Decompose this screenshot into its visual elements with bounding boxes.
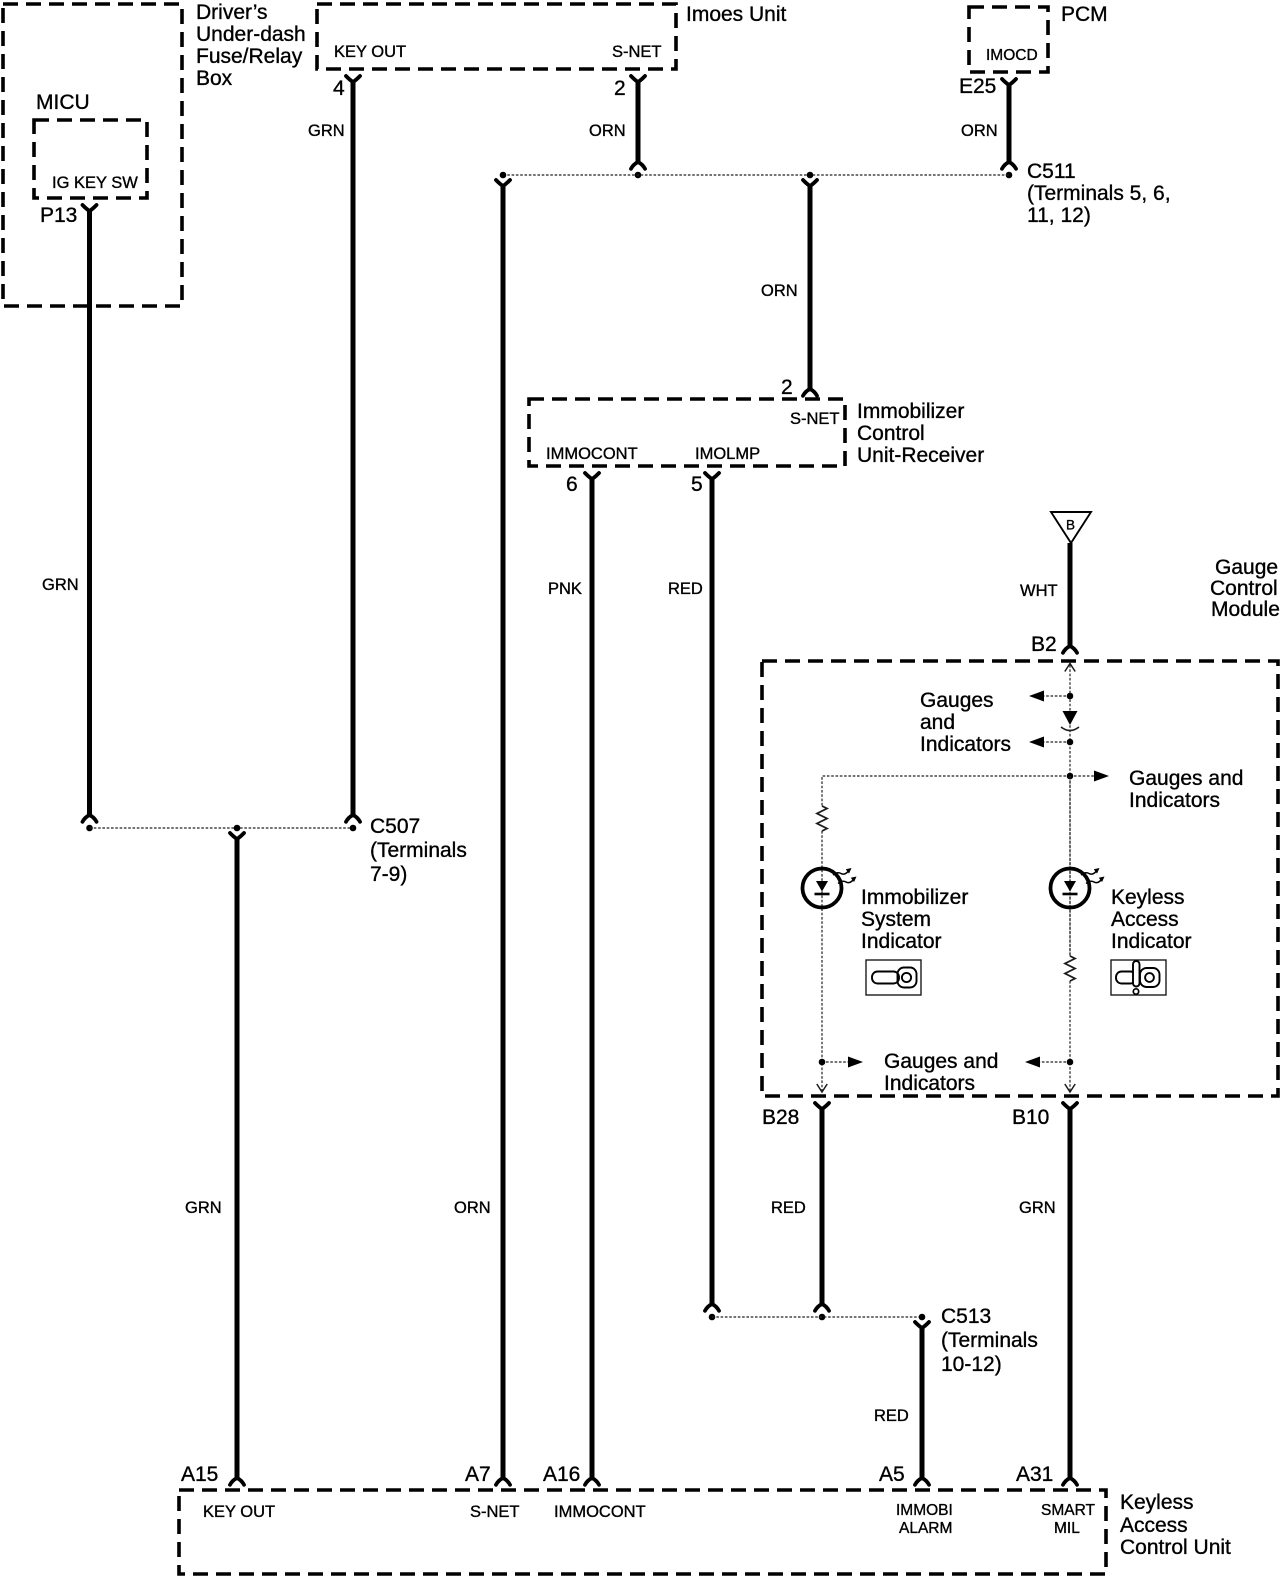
svg-text:IMOCD: IMOCD (986, 47, 1038, 64)
LED cathode bar (815, 893, 830, 896)
svg-text:IG KEY SW: IG KEY SW (52, 174, 138, 192)
wire ORN from pin 2 to C511 (636, 80, 641, 162)
connector half below C513 right (A5 wire start) (915, 1322, 929, 1328)
wire (dashed) to left arrow (bottom) (1040, 1061, 1066, 1063)
connector half at A7 (496, 1478, 510, 1485)
svg-text:IMMOBI: IMMOBI (896, 1502, 953, 1519)
wire GRN from C507 to A15 (235, 837, 240, 1478)
wire (thin) right leg bottom (1069, 981, 1071, 1091)
box: Imoes Unit (317, 4, 676, 69)
svg-text:ORN: ORN (961, 122, 998, 140)
svg-text:A5: A5 (879, 1463, 905, 1486)
connector half at A16 (585, 1478, 599, 1485)
wire ORN from E25 to C511 (1007, 83, 1012, 162)
svg-text:Control: Control (1210, 577, 1278, 600)
junction dot C511 at S-NET branch (635, 172, 642, 179)
svg-text:6: 6 (566, 473, 578, 496)
svg-text:(Terminals: (Terminals (370, 839, 467, 862)
connector half at C507 left (83, 815, 97, 822)
pin B28 connector (815, 1103, 829, 1109)
pin 2 connector at immobilizer (803, 389, 817, 396)
pin B10 connector (1063, 1103, 1077, 1109)
box: Driver's Under-dash Fuse/Relay Box (MICU outer) (3, 4, 182, 306)
wire (thin) right leg below third tap (1069, 776, 1071, 956)
junction dot (left leg bottom tap) (819, 1059, 826, 1066)
svg-text:C507: C507 (370, 815, 420, 838)
LED triangle (816, 881, 828, 892)
wire ORN from C511 to A7 (501, 184, 506, 1478)
connector half at A15 (230, 1478, 244, 1485)
box: IG KEY SW (34, 120, 147, 198)
key icon (immobilizer) key shape (898, 968, 917, 988)
junction dot C507 middle (234, 825, 241, 832)
svg-text:Keyless: Keyless (1111, 886, 1185, 909)
svg-text:GRN: GRN (308, 122, 345, 140)
svg-text:PCM: PCM (1061, 3, 1108, 26)
svg-text:and: and (920, 711, 955, 734)
svg-text:A15: A15 (181, 1463, 218, 1486)
svg-text:GRN: GRN (1019, 1199, 1056, 1217)
connector half below C507 middle (A15 wire start) (230, 833, 244, 839)
wire GRN from pin 4 to C507 (351, 80, 356, 815)
pin 6 connector (585, 473, 599, 479)
wire RED from pin 5 to C513 (710, 477, 715, 1304)
svg-text:MICU: MICU (36, 91, 90, 114)
resistor (left leg) (817, 806, 827, 831)
svg-text:WHT: WHT (1020, 582, 1058, 600)
svg-text:11, 12): 11, 12) (1027, 204, 1091, 227)
junction dot C513 left (709, 1314, 716, 1321)
connector half at C507 right (346, 815, 360, 822)
key icon (keyless) key shape (1140, 968, 1160, 987)
LED light arrows (keyless) (1081, 872, 1096, 876)
svg-text:B: B (1066, 518, 1075, 533)
LED cathode bar (keyless) (1063, 893, 1078, 896)
arrow right (bottom gauges) (848, 1057, 863, 1068)
box: Keyless Access Control Unit (179, 1490, 1106, 1574)
svg-text:(Terminals 5, 6,: (Terminals 5, 6, (1027, 182, 1171, 205)
svg-text:B2: B2 (1031, 633, 1057, 656)
connector half at C513 left (705, 1304, 719, 1311)
svg-text:B28: B28 (762, 1106, 799, 1129)
svg-text:B10: B10 (1012, 1106, 1049, 1129)
svg-text:Fuse/Relay: Fuse/Relay (196, 45, 303, 68)
svg-text:7-9): 7-9) (370, 863, 407, 886)
svg-text:2: 2 (781, 376, 793, 399)
junction dot C513 right (919, 1314, 926, 1321)
svg-text:Unit-Receiver: Unit-Receiver (857, 444, 984, 467)
arrow out of box at B10 (1065, 1084, 1075, 1092)
svg-text:Imoes Unit: Imoes Unit (686, 3, 787, 26)
svg-text:Access: Access (1120, 1514, 1188, 1537)
svg-text:Control Unit: Control Unit (1120, 1536, 1231, 1559)
svg-text:S-NET: S-NET (612, 43, 662, 61)
pin 4 connector (346, 76, 360, 82)
LED light arrows (immobilizer) (833, 872, 848, 876)
LED circle (immobilizer system indicator) (803, 869, 842, 908)
wire (dashed) to gauges arrow 1 (1042, 695, 1066, 697)
wire RED from B28 to C513 (820, 1107, 825, 1304)
wire (thin) branch to left leg (822, 776, 1066, 806)
wire (thin) left leg (821, 831, 823, 1091)
connector line C513 (712, 1316, 922, 1318)
svg-text:Under-dash: Under-dash (196, 23, 306, 46)
junction dot C511 at immobilizer branch (807, 172, 814, 179)
svg-text:2: 2 (614, 77, 626, 100)
junction dot C507 right (350, 825, 357, 832)
pin P13 connector (83, 205, 97, 211)
svg-text:RED: RED (874, 1407, 909, 1425)
connector line C507 (90, 827, 354, 829)
connector half at C511 (pin 2 end) (631, 162, 645, 169)
svg-text:A31: A31 (1016, 1463, 1053, 1486)
junction dot (third tap) (1067, 773, 1074, 780)
svg-text:Driver’s: Driver’s (196, 1, 268, 24)
pin E25 connector (1002, 79, 1016, 85)
pin 2 connector (631, 76, 645, 82)
arrow into box at B2 (1065, 664, 1075, 672)
arrow out of box at B28 (817, 1084, 827, 1092)
svg-text:Module: Module (1211, 598, 1280, 621)
svg-text:GRN: GRN (42, 576, 79, 594)
connector half at A31 (1063, 1478, 1077, 1485)
box: PCM (969, 7, 1048, 72)
wire (thin) B2 branch vertical (1069, 665, 1071, 956)
svg-text:Control: Control (857, 422, 925, 445)
wire GRN from B10 to A31 (1068, 1107, 1073, 1478)
wire WHT from antenna to B2 (1068, 543, 1073, 646)
junction dot (right leg bottom tap) (1067, 1059, 1074, 1066)
junction dot (second gauges tap) (1067, 739, 1074, 746)
svg-text:Immobilizer: Immobilizer (857, 400, 964, 423)
connector half below C511 left (A7 wire start) (496, 180, 510, 186)
svg-text:Indicator: Indicator (1111, 930, 1192, 953)
key icon (keyless) frame (1111, 960, 1166, 995)
svg-text:(Terminals: (Terminals (941, 1329, 1038, 1352)
svg-text:GRN: GRN (185, 1199, 222, 1217)
svg-text:IMMOCONT: IMMOCONT (546, 445, 638, 463)
antenna B symbol (1051, 512, 1091, 543)
junction dot C507 left (86, 825, 93, 832)
wire GRN from P13 to C507 (87, 209, 92, 815)
svg-text:SMART: SMART (1041, 1502, 1096, 1519)
wire RED from C513 to A5 (920, 1326, 925, 1478)
svg-text:MIL: MIL (1054, 1520, 1080, 1537)
LED triangle (keyless) (1064, 881, 1076, 892)
connector half at C511 right end (1002, 162, 1016, 169)
svg-text:RED: RED (771, 1199, 806, 1217)
arrow left (bottom keyless) (1025, 1057, 1040, 1068)
connector half below C511 branch (to immobilizer pin 2) (803, 180, 817, 186)
junction dot C511 left (500, 172, 507, 179)
arrow right (gauges and indicators right) (1094, 771, 1109, 782)
svg-text:ALARM: ALARM (899, 1520, 952, 1537)
key icon (immobilizer) frame (866, 960, 921, 995)
connector half at B2 (1063, 646, 1077, 653)
junction dot C513 middle (819, 1314, 826, 1321)
arrow left (gauges 2) (1029, 737, 1044, 748)
connector half at C513 middle (815, 1304, 829, 1311)
svg-text:10-12): 10-12) (941, 1353, 1002, 1376)
svg-text:IMMOCONT: IMMOCONT (554, 1503, 646, 1521)
svg-text:ORN: ORN (589, 122, 626, 140)
svg-text:KEY OUT: KEY OUT (203, 1503, 275, 1521)
svg-text:ORN: ORN (454, 1199, 491, 1217)
svg-text:P13: P13 (40, 204, 77, 227)
diode arrow down on B2 branch (1063, 711, 1078, 725)
svg-text:ORN: ORN (761, 282, 798, 300)
svg-text:C511: C511 (1027, 160, 1076, 183)
svg-text:Access: Access (1111, 908, 1179, 931)
resistor (right leg) (1065, 956, 1075, 981)
connector half at A5 (915, 1478, 929, 1485)
svg-text:S-NET: S-NET (470, 1503, 520, 1521)
svg-text:5: 5 (691, 473, 703, 496)
svg-text:C513: C513 (941, 1305, 991, 1328)
wire (dashed) to gauges arrow 2 (1042, 741, 1066, 743)
junction dot C511 right (1006, 172, 1013, 179)
svg-text:Gauges and: Gauges and (1129, 767, 1243, 790)
svg-text:RED: RED (668, 580, 703, 598)
LED circle (keyless access indicator) (1051, 869, 1090, 908)
svg-text:Keyless: Keyless (1120, 1491, 1194, 1514)
svg-text:Indicators: Indicators (920, 733, 1011, 756)
wire (dashed) to right arrow (bottom) (826, 1061, 848, 1063)
connector line C511 (503, 174, 1009, 176)
arrow left (gauges 1) (1029, 691, 1044, 702)
wire PNK from pin 6 to A16 (590, 477, 595, 1478)
svg-text:Indicators: Indicators (1129, 789, 1220, 812)
pin 5 connector (705, 473, 719, 479)
box: Gauge Control Module (762, 661, 1278, 1096)
wire ORN from C511 to immobilizer pin 2 (808, 184, 813, 389)
svg-text:S-NET: S-NET (790, 410, 840, 428)
svg-text:A16: A16 (543, 1463, 580, 1486)
wire (dashed) to right arrow (1074, 775, 1095, 777)
svg-text:4: 4 (333, 77, 345, 100)
svg-text:Indicator: Indicator (861, 930, 942, 953)
svg-text:E25: E25 (959, 75, 996, 98)
svg-text:A7: A7 (465, 1463, 491, 1486)
svg-text:Gauges: Gauges (920, 689, 994, 712)
junction dot (first gauges tap) (1067, 693, 1074, 700)
svg-text:Immobilizer: Immobilizer (861, 886, 968, 909)
svg-text:IMOLMP: IMOLMP (695, 445, 760, 463)
svg-text:System: System (861, 908, 931, 931)
box: Immobilizer Control Unit-Receiver (529, 399, 845, 466)
svg-text:Indicators: Indicators (884, 1072, 975, 1095)
svg-text:PNK: PNK (548, 580, 582, 598)
svg-text:Gauges and: Gauges and (884, 1050, 998, 1073)
svg-text:Box: Box (196, 67, 233, 90)
svg-text:Gauge: Gauge (1215, 556, 1278, 579)
arc below diode arrow (1061, 727, 1079, 731)
svg-text:KEY OUT: KEY OUT (334, 43, 406, 61)
